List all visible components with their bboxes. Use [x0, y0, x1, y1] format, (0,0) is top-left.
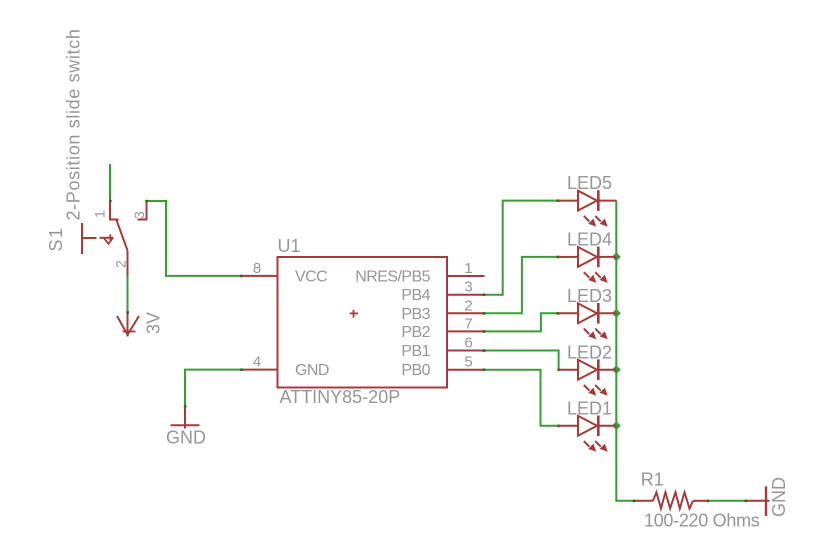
svg-text:4: 4 — [253, 354, 261, 371]
svg-text:LED3: LED3 — [567, 286, 612, 306]
svg-text:7: 7 — [464, 315, 472, 332]
svg-text:2-Position slide switch: 2-Position slide switch — [64, 28, 84, 220]
svg-text:R1: R1 — [641, 470, 664, 490]
svg-text:6: 6 — [464, 335, 472, 352]
svg-text:GND: GND — [166, 428, 206, 448]
svg-text:5: 5 — [464, 354, 472, 371]
svg-text:GND: GND — [769, 477, 789, 517]
svg-text:PB1: PB1 — [401, 343, 430, 360]
svg-text:3: 3 — [131, 211, 147, 219]
svg-text:S1: S1 — [46, 226, 66, 251]
svg-text:3V: 3V — [144, 312, 164, 334]
svg-text:PB4: PB4 — [401, 287, 430, 304]
svg-text:LED4: LED4 — [567, 230, 612, 250]
svg-text:PB2: PB2 — [401, 324, 430, 341]
svg-text:LED2: LED2 — [567, 342, 612, 362]
svg-text:PB3: PB3 — [401, 306, 430, 323]
svg-text:U1: U1 — [278, 236, 301, 256]
svg-text:VCC: VCC — [295, 269, 327, 286]
svg-text:GND: GND — [295, 362, 329, 379]
svg-text:PB0: PB0 — [401, 362, 430, 379]
svg-text:2: 2 — [464, 297, 472, 314]
svg-text:1: 1 — [92, 210, 108, 218]
svg-text:LED5: LED5 — [567, 173, 612, 193]
svg-text:100-220 Ohms: 100-220 Ohms — [644, 511, 760, 531]
svg-text:ATTINY85-20P: ATTINY85-20P — [280, 387, 401, 407]
svg-text:NRES/PB5: NRES/PB5 — [355, 269, 430, 286]
svg-text:3: 3 — [464, 279, 472, 296]
svg-text:8: 8 — [253, 260, 261, 277]
svg-text:LED1: LED1 — [567, 398, 612, 418]
svg-text:2: 2 — [113, 260, 129, 268]
svg-text:1: 1 — [464, 260, 472, 277]
